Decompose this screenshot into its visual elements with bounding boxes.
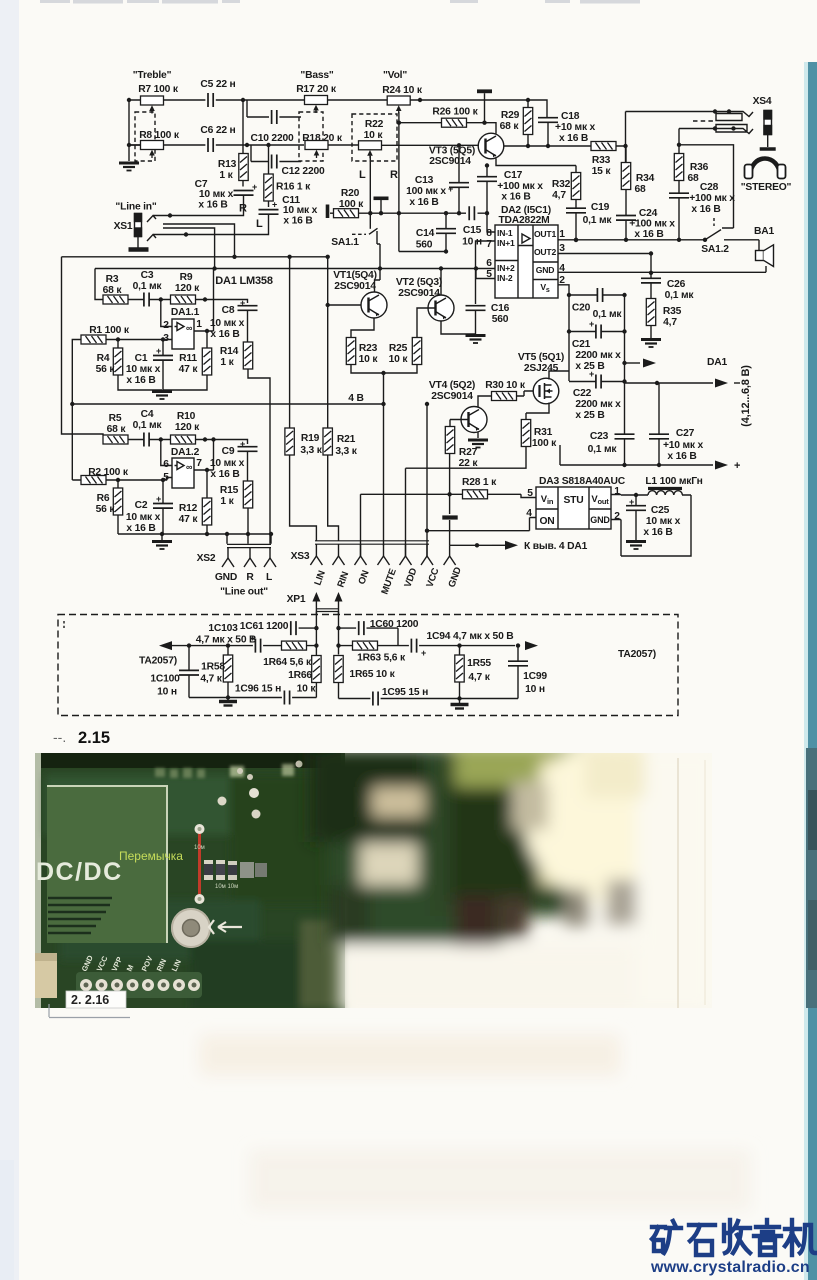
resistor R16 [264,174,273,201]
connector XS3 double line [315,541,429,544]
svg-text:SA1.2: SA1.2 [701,244,729,255]
svg-text:C9: C9 [222,446,235,457]
svg-text:R9: R9 [180,272,193,283]
potentiometer R8 [141,141,164,159]
svg-text:www.crystalradio.cn: www.crystalradio.cn [650,1259,810,1276]
wire R35 to ground [650,326,652,339]
XS4 mech dashes [693,120,715,122]
svg-text:7: 7 [196,458,202,469]
svg-text:1 к: 1 к [219,170,233,181]
transistor VT4 [461,407,487,433]
transistor VT3 [478,133,504,159]
svg-text:XS1: XS1 [114,221,133,232]
node gnd stem [379,211,383,215]
ground C16 VT2 [466,336,486,344]
svg-text:8: 8 [486,228,492,239]
svg-text:R16 1 к: R16 1 к [276,182,311,193]
pad labels rotated [80,953,183,972]
wire VT4 base R27 [450,420,469,428]
bus 4V line [72,403,383,405]
svg-text:x 16 В: x 16 В [409,197,438,208]
wire pin5 stub [476,269,495,279]
capacitor C7 polarized [234,191,254,196]
wire R27 bottom chain [449,454,451,515]
svg-text:R3: R3 [106,274,119,285]
svg-text:"Vol": "Vol" [383,70,407,81]
svg-text:56 к: 56 к [96,504,116,515]
resistor R33 [591,142,616,151]
SA1.2 mech dash [713,218,715,226]
arrow to DA1 mid [625,362,641,364]
svg-text:10 мк x: 10 мк x [126,364,161,375]
svg-text:C16: C16 [491,303,510,314]
svg-text:C23: C23 [590,431,609,442]
svg-text:C8: C8 [222,305,235,316]
svg-text:R24 10 к: R24 10 к [382,85,423,96]
wire R13 chain [242,100,244,187]
wire K vyv line [450,544,492,546]
svg-text:TA2057): TA2057) [618,649,656,660]
dashed gang box R22 [352,114,397,161]
ground preamp1 [152,392,172,400]
wire C7 to XS1 tip R [160,195,244,215]
svg-text:+100 мк x: +100 мк x [497,181,543,192]
svg-text:10 к: 10 к [364,130,384,141]
node R29 bottom [526,144,530,148]
XP1 double line [316,609,338,612]
svg-text:3: 3 [559,243,565,254]
node L wiper crossing [368,211,372,215]
wire C25 node [621,495,691,556]
svg-text:К выв. 4 DA1: К выв. 4 DA1 [524,541,588,552]
wire XS4 tip line [626,112,716,163]
svg-text:x 16 В: x 16 В [691,204,720,215]
svg-text:C26: C26 [667,279,686,290]
svg-text:--.: --. [53,729,66,745]
ground XS4 [760,148,776,150]
wire pin4 ON [427,518,536,531]
char ji [785,1220,815,1255]
wire VT3 base [477,144,480,146]
svg-text:56 к: 56 к [96,364,116,375]
svg-text:C20: C20 [572,303,591,314]
svg-text:C27: C27 [676,428,695,439]
svg-text:+: + [421,648,426,658]
svg-text:+: + [252,182,257,192]
svg-text:XS2: XS2 [197,553,216,564]
wire R26 [399,122,485,124]
svg-text:C18: C18 [561,111,580,122]
wire VT3 collector [485,123,497,134]
svg-text:GND: GND [215,572,237,583]
wire R30 to VT5 gate [517,391,534,396]
svg-text:IN-1: IN-1 [497,228,513,238]
arrow left out [159,641,172,650]
svg-text:C10 2200: C10 2200 [250,133,294,144]
wire VT2 base [417,308,436,338]
svg-text:x 16 В: x 16 В [667,451,696,462]
capacitor C11 polarized [259,210,279,215]
svg-text:XS4: XS4 [753,96,772,107]
capacitor 1C60 [359,621,364,635]
svg-text:1 к: 1 к [220,357,234,368]
resistor R23 [346,338,355,365]
svg-text:0,1 мк: 0,1 мк [133,281,163,292]
svg-text:R: R [390,169,398,181]
white arrow [209,920,242,934]
beige part bottom left [35,953,57,998]
wire R28 line [361,494,537,556]
svg-text:R31: R31 [534,427,553,438]
wire R14 bottom to L out [248,369,270,544]
resistor R4 [113,348,122,375]
svg-text:10 н: 10 н [157,687,177,698]
top cut-off text remnants [40,0,640,4]
wire pin2 Vs [558,285,569,381]
wire upper channel y=299.5 [103,300,248,304]
svg-text:L1 100 мкГн: L1 100 мкГн [645,476,702,487]
ground TA right [459,699,461,704]
wire pin2 GND [611,520,621,548]
wire VT5 source bottom to R31 [526,403,549,421]
capacitor C6 [208,138,213,152]
potentiometer R7 [141,96,164,114]
svg-text:0,1 мк: 0,1 мк [583,215,613,226]
node R26 right [482,121,486,125]
potentiometer R18 [305,141,328,159]
svg-text:x 16 В: x 16 В [283,216,312,227]
wire XS1 shield to bus2 [163,228,215,269]
XS1 plug contact L [147,235,176,242]
svg-text:4,7 к: 4,7 к [468,672,490,683]
speaker BA1 [756,245,774,267]
svg-text:47 к: 47 к [179,514,199,525]
resistor 1R55 [455,655,464,682]
svg-text:DA3 S818A40AUC: DA3 S818A40AUC [539,476,626,487]
svg-text:R28 1 к: R28 1 к [462,477,497,488]
svg-text:Перемычка: Перемычка [119,849,183,863]
svg-text:+100 мк x: +100 мк x [629,219,675,230]
wire inverting input 2 [161,440,172,466]
dashed gang box R7-R8 [135,112,155,161]
capacitor C14 [436,229,456,234]
svg-text:R33: R33 [592,155,611,166]
capacitor 1C94 [411,639,416,653]
wire output 2 [194,440,214,499]
wire left edge down to R5 [62,257,104,435]
svg-text:10 к: 10 к [389,354,409,365]
wire left bottom [189,697,316,699]
wire VT2 collector [440,269,442,296]
svg-text:2. 2.16: 2. 2.16 [71,993,109,1007]
wire inverting input [161,300,172,327]
ground R35 [641,340,661,348]
resistor 1R64 [282,641,307,650]
node XS1 L wire [184,232,188,236]
wire pin1 out [558,239,705,241]
ground XS1 [129,247,149,251]
svg-text:0,1 мк: 0,1 мк [593,309,623,320]
svg-text:"Treble": "Treble" [133,70,172,81]
capacitor C23 [615,434,635,439]
svg-text:120 к: 120 к [175,422,200,433]
svg-text:+: + [589,319,594,329]
node R58 top [226,643,230,647]
op-amp DA1.1 [172,319,194,349]
svg-text:C24: C24 [639,208,658,219]
svg-text:+: + [589,369,594,379]
power bar top [477,89,492,93]
svg-text:2: 2 [614,511,620,522]
node R9 left [159,297,163,301]
dark top strip [41,753,341,768]
svg-text:100 к: 100 к [532,438,557,449]
node R24 wiper to R26 [397,121,401,125]
resistor R3 [103,295,128,304]
XS4 tip contact [715,112,753,121]
svg-text:1C61 1200: 1C61 1200 [240,621,289,632]
wiper wire R from R24 [398,112,400,252]
capacitor C1 [153,356,173,361]
svg-text:4,7: 4,7 [552,190,566,201]
svg-text:10 мк x: 10 мк x [283,205,318,216]
wire mid rail y=145 [129,144,479,146]
svg-text:2SC9014: 2SC9014 [334,281,376,292]
svg-text:∞: ∞ [186,323,193,333]
node R10 right [203,437,207,441]
svg-text:10 мк x: 10 мк x [210,318,245,329]
svg-text:+: + [156,346,161,356]
wire VT2 emitter [441,321,476,334]
wire supply plus line y=465 [560,445,713,465]
svg-text:10 мк x: 10 мк x [199,189,234,200]
resistor R30 [492,392,517,401]
svg-text:R14: R14 [220,346,239,357]
svg-text:R25: R25 [389,343,408,354]
IC DA2 TDA2822M [495,225,558,298]
svg-text:R4: R4 [97,353,110,364]
wire VT5 drain top [549,371,569,380]
wire R16 chain from C6 node [268,145,270,207]
capacitor C22 [596,375,601,389]
wire pin1 Vout [611,494,621,497]
svg-text:R32: R32 [552,179,571,190]
svg-text:XS3: XS3 [291,551,310,562]
svg-text:100 мк x: 100 мк x [406,186,446,197]
svg-text:∞: ∞ [186,462,193,472]
node shield bus1 end [232,255,236,259]
svg-text:x 16 В: x 16 В [126,375,155,386]
resistor R1 [81,335,106,344]
potentiometer R17 [305,96,328,114]
capacitor C2 [153,504,173,509]
power bar mid [442,515,457,519]
svg-text:2SJ245: 2SJ245 [524,363,559,374]
svg-text:68 к: 68 к [500,121,520,132]
smd parts [194,845,267,890]
resistor R11 [202,348,211,375]
connector XS1 jack body [135,214,142,249]
headphone icon [751,159,780,175]
watermark kuangshi shouyinji [652,1220,815,1255]
wire RIN vertical [339,612,353,655]
svg-text:560: 560 [416,240,433,251]
svg-text:R7 100 к: R7 100 к [138,84,179,95]
connector pads [76,972,202,998]
XP1 arrows up [316,597,338,614]
resistor 1R63 [353,641,378,650]
svg-text:10 мк x: 10 мк x [210,458,245,469]
svg-text:+: + [156,494,161,504]
wire R23 R25 bottoms [351,365,417,546]
node R55 top [457,643,461,647]
capacitor C9 [238,447,258,452]
capacitor 1C103 [255,639,260,653]
svg-text:R23: R23 [359,343,378,354]
svg-text:1R66: 1R66 [288,670,312,681]
svg-text:R5: R5 [109,413,122,424]
wire noninverting input 2 [106,478,172,481]
capacitor C8 [238,306,258,311]
node 1C99 top [516,643,520,647]
capacitor C25 [626,506,646,511]
svg-text:4,7 мк x 50 В: 4,7 мк x 50 В [196,635,257,646]
svg-text:L: L [266,572,272,583]
wire right bottom [339,698,519,700]
capacitor C20 [597,288,602,302]
node C6 out [245,143,249,147]
svg-text:+: + [629,497,634,507]
wire lower channel y=439.5 [103,440,248,445]
svg-text:C6 22 н: C6 22 н [200,125,235,136]
capacitor C24 [616,216,636,221]
dashed box TA2057 [58,615,678,716]
svg-text:1C94 4,7 мк x 50 В: 1C94 4,7 мк x 50 В [426,631,513,642]
wire pin7 to C16 [476,241,496,304]
svg-text:C14: C14 [416,228,435,239]
svg-text:TDA2822M: TDA2822M [498,215,549,226]
svg-text:VT1(5Q4): VT1(5Q4) [333,270,377,281]
capacitor C18 [538,118,558,123]
wire R31 bottom [406,447,527,557]
svg-text:120 к: 120 к [175,283,200,294]
node R8 left [127,143,131,147]
svg-text:5: 5 [527,488,533,499]
svg-text:C21: C21 [572,339,591,350]
capacitor C3 [144,293,149,307]
wire R21 drop [328,257,339,541]
capacitor C16 [466,306,486,311]
svg-text:4,7: 4,7 [663,317,677,328]
svg-text:0,1 мк: 0,1 мк [665,290,695,301]
svg-text:1R63 5,6 к: 1R63 5,6 к [357,653,406,664]
resistor R35 [646,299,655,326]
svg-text:VT5 (5Q1): VT5 (5Q1) [518,352,564,363]
resistor R21 [323,428,332,455]
svg-text:R34: R34 [636,173,655,184]
svg-text:10м: 10м [194,845,205,851]
svg-text:R10: R10 [177,411,196,422]
svg-text:"Bass": "Bass" [300,70,333,81]
right teal strip [808,62,817,1280]
svg-text:x 16 В: x 16 В [210,329,239,340]
capacitor C26 [641,278,661,283]
svg-text:R29: R29 [501,110,520,121]
svg-text:C4: C4 [141,409,154,420]
svg-text:2SC9014: 2SC9014 [429,156,471,167]
svg-text:x 16 В: x 16 В [126,523,155,534]
svg-text:1C96 15 н: 1C96 15 н [235,684,281,695]
svg-text:2SC9014: 2SC9014 [431,391,473,402]
solder dots [218,797,227,806]
char shou [724,1220,750,1253]
caption 2.15 [53,729,110,747]
capacitor C13 [449,183,469,188]
PCB photo [35,742,716,1013]
svg-text:R35: R35 [663,306,682,317]
ground TA left [227,698,229,701]
svg-text:GND: GND [536,265,555,275]
svg-text:+: + [250,633,255,643]
ground bar above SA1.1 [374,197,389,201]
svg-text:10м 10м: 10м 10м [215,884,238,890]
dashed gang box R17-R18 [299,112,323,161]
svg-text:6: 6 [486,258,492,269]
svg-text:VT4 (5Q2): VT4 (5Q2) [429,380,475,391]
wire left channel line [172,645,316,647]
wire VT3 out line y=145.5 [504,145,626,147]
svg-text:C12 2200: C12 2200 [281,166,325,177]
wire C10 branch [247,100,301,117]
wire R19 drop [290,257,317,541]
capacitor 1C61 [291,621,296,635]
resistor 1R65 [334,656,343,683]
wire R3 feed [95,269,103,300]
svg-text:VT3 (5Q5): VT3 (5Q5) [429,146,475,157]
resistor R10 [171,435,196,444]
resistor R27 [445,427,454,454]
resistor R31 [521,420,530,447]
svg-text:+: + [240,439,245,449]
potentiometer R22 rotated wiper below [359,141,382,159]
svg-text:BA1: BA1 [754,226,774,237]
bottom bus preamp [118,533,271,535]
svg-text:68 к: 68 к [107,424,127,435]
svg-text:1: 1 [614,486,620,497]
wire XS2 feeds [227,534,271,544]
capacitor 1C95 [373,692,378,706]
resistor 1R66 [312,656,321,683]
svg-text:68: 68 [687,173,699,184]
svg-text:DA1.1: DA1.1 [171,307,200,318]
wire ring to R36 [679,129,734,229]
wire left rail of R7/R8 [129,100,141,161]
svg-text:R26 100 к: R26 100 к [432,107,478,118]
resistor 1R58 [223,655,232,682]
svg-text:10 н: 10 н [525,684,545,695]
faint page smudges bottom [200,1035,750,1210]
capacitor C19 [566,208,586,213]
resistor R12 [202,498,211,525]
svg-text:IN+1: IN+1 [497,238,515,248]
svg-text:2200 мк x: 2200 мк x [575,399,621,410]
node shield bus2 end [212,266,216,270]
char kuang [652,1221,681,1253]
char yin [754,1220,781,1255]
wire VT4 collector [478,396,492,408]
photo base wash [35,753,712,1008]
svg-text:10 к: 10 к [297,684,317,695]
